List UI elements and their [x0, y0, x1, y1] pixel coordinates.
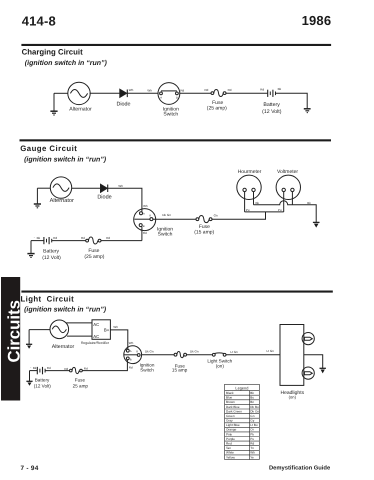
svg-text:Pink: Pink — [226, 432, 232, 436]
wire — [54, 92, 68, 94]
svg-text:Dark Blue: Dark Blue — [226, 405, 240, 409]
wire — [90, 92, 120, 94]
svg-text:A: A — [160, 97, 162, 100]
svg-text:Fuse: Fuse — [75, 378, 86, 383]
wire Lt Gn — [226, 354, 280, 356]
svg-text:Purple: Purple — [226, 437, 235, 441]
svg-text:Lt Bu: Lt Bu — [250, 423, 258, 427]
svg-text:Rd: Rd — [81, 236, 85, 240]
svg-text:-: - — [34, 235, 35, 239]
node lower rail — [245, 211, 284, 213]
fuse 25 amp — [86, 237, 101, 244]
legend table frame — [225, 384, 260, 459]
ignition switch — [134, 209, 156, 231]
svg-text:White: White — [226, 451, 234, 455]
svg-text:Alternator: Alternator — [69, 106, 92, 112]
wire hourmeter right down — [253, 192, 255, 205]
svg-text:Wh: Wh — [147, 88, 152, 92]
ground — [27, 241, 34, 258]
svg-text:B+: B+ — [104, 328, 110, 333]
svg-text:Bk: Bk — [37, 236, 41, 240]
svg-text:Gn: Gn — [250, 414, 254, 418]
svg-text:Bn: Bn — [250, 400, 254, 404]
svg-text:Battery: Battery — [35, 378, 50, 383]
svg-text:414-8: 414-8 — [22, 13, 56, 28]
wire Dk Gn — [153, 218, 196, 220]
svg-text:Or: Or — [250, 428, 253, 432]
wire Dk Gn — [187, 354, 213, 356]
SECTION: legend — [225, 384, 260, 459]
battery 12V — [37, 367, 45, 374]
wire voltmeter left down — [283, 192, 285, 212]
svg-text:Wh: Wh — [143, 204, 148, 208]
svg-text:Alternator: Alternator — [52, 344, 75, 350]
battery rail wire — [31, 240, 44, 242]
svg-text:Wh: Wh — [118, 184, 123, 188]
svg-text:Charging Circuit: Charging Circuit — [22, 48, 83, 57]
fuse 15 amp — [196, 216, 212, 223]
svg-text:Gy: Gy — [250, 419, 254, 423]
svg-text:(25 amp): (25 amp) — [84, 254, 104, 260]
svg-text:Ye: Ye — [250, 455, 254, 459]
svg-text:Gauge Circuit: Gauge Circuit — [20, 144, 77, 153]
SECTION: footer — [21, 464, 331, 472]
wire — [37, 187, 50, 189]
svg-text:Rd: Rd — [250, 442, 254, 446]
svg-text:Light Circuit: Light Circuit — [21, 294, 75, 303]
svg-text:Tn: Tn — [250, 446, 254, 450]
svg-text:(12 Volt): (12 Volt) — [34, 384, 52, 389]
svg-text:Switch: Switch — [158, 232, 173, 238]
svg-text:Rd: Rd — [143, 231, 147, 235]
wire hourmeter left down — [244, 192, 246, 212]
svg-text:Wh: Wh — [113, 325, 118, 329]
wire Rd from battery rail up to B — [141, 227, 143, 241]
light switch — [212, 353, 226, 356]
svg-text:Yellow: Yellow — [226, 455, 236, 459]
wire Dk Gn — [142, 354, 174, 356]
svg-text:7 - 94: 7 - 94 — [21, 465, 39, 472]
svg-text:Dk Gn: Dk Gn — [145, 350, 154, 354]
wire Wh — [108, 188, 142, 211]
svg-text:Legend: Legend — [235, 386, 248, 391]
svg-text:Rd: Rd — [180, 88, 184, 92]
svg-text:Demystification Guide: Demystification Guide — [269, 464, 331, 471]
SECTION: light — [1, 277, 333, 401]
svg-text:Bu: Bu — [250, 396, 254, 400]
svg-text:Black: Black — [226, 391, 234, 395]
wire Rd to switch — [101, 240, 142, 242]
diode D2 — [101, 184, 108, 192]
wire to meters — [212, 212, 266, 219]
ground arrow — [313, 218, 320, 228]
svg-text:25 amp: 25 amp — [73, 383, 89, 388]
svg-text:(on): (on) — [216, 363, 225, 368]
svg-text:Regulator/Rectifier: Regulator/Rectifier — [81, 341, 110, 345]
ground — [34, 188, 41, 208]
wire B+ Wh — [110, 330, 127, 349]
lamp bottom — [302, 367, 314, 379]
battery 12V — [268, 90, 276, 97]
svg-text:Light Blue: Light Blue — [226, 423, 240, 427]
svg-text:Fuse: Fuse — [88, 248, 99, 254]
battery rail wire — [30, 370, 38, 372]
svg-text:Brown: Brown — [226, 400, 235, 404]
diode D1 — [120, 89, 128, 97]
lamp top — [302, 333, 314, 345]
svg-text:Battery: Battery — [263, 102, 280, 108]
svg-text:(25 amp): (25 amp) — [207, 105, 227, 111]
legend row lines — [225, 391, 260, 455]
svg-text:-: - — [30, 365, 31, 369]
svg-text:Rd: Rd — [205, 88, 209, 92]
svg-text:Rd: Rd — [64, 367, 68, 371]
svg-text:Battery: Battery — [43, 248, 59, 254]
voltmeter — [276, 175, 300, 199]
fuse 15 amp — [174, 352, 186, 358]
svg-text:Dk Gn: Dk Gn — [250, 409, 259, 413]
ground — [50, 93, 57, 115]
svg-text:Rd: Rd — [260, 88, 264, 92]
wire — [226, 92, 267, 94]
svg-text:Bk: Bk — [250, 391, 254, 395]
wire — [276, 93, 308, 108]
svg-text:Tan: Tan — [226, 446, 231, 450]
svg-text:Dk Bu: Dk Bu — [250, 405, 259, 409]
wire — [180, 92, 211, 94]
svg-text:Pk: Pk — [250, 432, 254, 436]
svg-text:Bk: Bk — [278, 87, 282, 91]
svg-text:Pu: Pu — [278, 208, 282, 212]
ground — [304, 109, 311, 113]
svg-text:Diode: Diode — [97, 195, 111, 201]
svg-text:Rd: Rd — [129, 365, 133, 369]
svg-text:Dark Green: Dark Green — [226, 409, 242, 413]
wire Wh — [127, 92, 158, 94]
battery 12V — [44, 237, 52, 244]
svg-text:Diode: Diode — [116, 101, 130, 107]
svg-text:Circuits: Circuits — [4, 300, 23, 362]
svg-text:(12 Volt): (12 Volt) — [262, 109, 282, 115]
svg-text:AC: AC — [93, 334, 99, 339]
svg-text:Wh: Wh — [129, 88, 134, 92]
wire Rd — [52, 240, 86, 242]
ignition switch — [158, 83, 180, 105]
svg-text:Wh: Wh — [250, 451, 255, 455]
ground — [26, 371, 32, 386]
wire — [72, 187, 101, 189]
svg-text:(ignition switch in “run”): (ignition switch in “run”) — [24, 305, 107, 313]
svg-text:Green: Green — [226, 414, 235, 418]
SECTION: header — [22, 13, 332, 28]
ground arrow — [320, 368, 326, 373]
alternator — [50, 320, 69, 339]
svg-text:(15 amp): (15 amp) — [194, 229, 214, 235]
legend divider — [248, 391, 250, 460]
svg-text:Alternator: Alternator — [50, 197, 74, 204]
svg-text:Orange: Orange — [226, 428, 237, 432]
svg-text:(on): (on) — [289, 395, 297, 400]
svg-text:A: A — [143, 213, 145, 216]
wire AC top — [66, 322, 92, 324]
svg-text:Rd: Rd — [106, 236, 110, 240]
hourmeter — [237, 175, 261, 199]
legend rows text — [226, 391, 259, 459]
headlights box — [280, 325, 304, 386]
svg-text:Pu: Pu — [246, 208, 250, 212]
svg-text:Lt Gn: Lt Gn — [230, 350, 238, 354]
wire Rd — [45, 370, 69, 372]
svg-text:(ignition switch in “run”): (ignition switch in “run”) — [24, 155, 107, 163]
svg-text:R: R — [136, 350, 138, 353]
svg-text:Blue: Blue — [226, 396, 232, 400]
svg-text:Dk Gn: Dk Gn — [162, 213, 171, 217]
svg-text:Wh: Wh — [129, 341, 134, 345]
svg-text:B: B — [143, 225, 145, 228]
SECTION: gauge — [20, 139, 332, 163]
svg-text:(12 Volt): (12 Volt) — [42, 255, 61, 261]
SECTION: charging — [21, 44, 331, 67]
svg-text:Switch: Switch — [163, 112, 178, 118]
svg-text:Gray: Gray — [226, 419, 233, 423]
svg-text:Dk Gn: Dk Gn — [190, 350, 199, 354]
fuse 25 amp — [70, 367, 83, 373]
ignition switch — [124, 346, 142, 364]
svg-text:A: A — [130, 350, 132, 353]
wire Rd to switch — [82, 360, 127, 371]
alternator — [50, 177, 71, 198]
wire upper rail with hop — [254, 201, 317, 218]
svg-text:Voltmeter: Voltmeter — [277, 169, 298, 175]
svg-text:Rd: Rd — [47, 366, 51, 370]
wire voltmeter right down — [291, 192, 293, 205]
wire to ground — [304, 355, 323, 368]
svg-text:15 amp: 15 amp — [172, 367, 188, 372]
svg-text:Lt Gn: Lt Gn — [267, 349, 275, 353]
fuse 25 amp — [211, 89, 226, 96]
svg-text:Pu: Pu — [250, 437, 254, 441]
svg-text:R: R — [149, 215, 151, 218]
svg-text:Bk: Bk — [307, 201, 311, 205]
svg-text:B: B — [176, 97, 178, 100]
svg-text:AC: AC — [93, 322, 99, 327]
svg-text:Red: Red — [226, 442, 232, 446]
alternator — [68, 82, 90, 104]
svg-text:Rd: Rd — [228, 88, 232, 92]
wire AC bottom — [67, 335, 92, 337]
wire — [29, 329, 50, 331]
svg-text:B: B — [130, 358, 132, 361]
svg-text:Bk: Bk — [33, 366, 37, 370]
svg-text:Switch: Switch — [140, 367, 154, 372]
svg-text:Rd: Rd — [53, 236, 57, 240]
regulator/rectifier U1 — [92, 320, 110, 340]
svg-text:Gn: Gn — [214, 214, 218, 218]
svg-text:1986: 1986 — [302, 13, 332, 28]
svg-text:Hourmeter: Hourmeter — [238, 169, 262, 175]
ground — [26, 330, 32, 349]
svg-text:(ignition switch in “run”): (ignition switch in “run”) — [25, 59, 108, 67]
